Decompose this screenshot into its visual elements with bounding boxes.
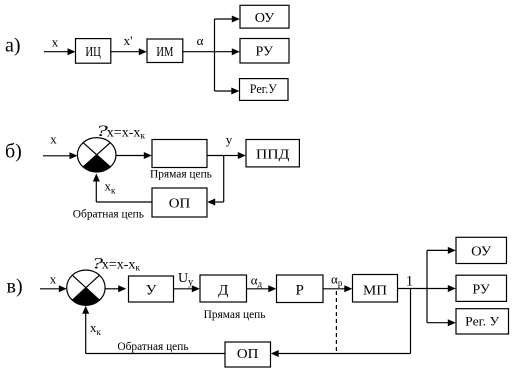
svg-text:МП: МП <box>363 284 387 299</box>
svg-text:ИМ: ИМ <box>156 44 173 59</box>
svg-text:Рег. У: Рег. У <box>465 314 500 329</box>
svg-text:x: x <box>52 35 59 50</box>
svg-text:ОП: ОП <box>169 197 191 212</box>
svg-text:α: α <box>197 33 204 48</box>
svg-text:ОУ: ОУ <box>471 245 491 260</box>
svg-text:РУ: РУ <box>472 283 490 298</box>
svg-text:Д: Д <box>218 283 228 299</box>
svg-text:x: x <box>50 272 57 287</box>
svg-text:РУ: РУ <box>256 45 274 60</box>
svg-text:x': x' <box>124 33 133 48</box>
svg-text:y: y <box>226 132 233 147</box>
svg-text:Р: Р <box>296 283 304 299</box>
svg-text:x=x-xк: x=x-xк <box>107 126 146 142</box>
svg-text:Обратная цепь: Обратная цепь <box>117 341 188 353</box>
svg-text:Прямая цепь: Прямая цепь <box>204 309 266 321</box>
svg-text:а): а) <box>5 35 21 57</box>
svg-text:ППД: ППД <box>256 148 290 163</box>
svg-text:1: 1 <box>406 274 414 290</box>
svg-text:x=x-xк: x=x-xк <box>102 258 141 274</box>
svg-text:ОУ: ОУ <box>255 11 275 26</box>
svg-text:x: x <box>50 132 57 147</box>
svg-text:б): б) <box>5 141 22 163</box>
svg-text:ОП: ОП <box>237 347 259 362</box>
svg-text:в): в) <box>7 275 23 297</box>
svg-text:ИЦ: ИЦ <box>85 44 101 59</box>
svg-text:У: У <box>146 283 157 299</box>
svg-text:Рег.У: Рег.У <box>250 82 277 96</box>
svg-text:Обратная цепь: Обратная цепь <box>73 209 144 221</box>
svg-text:Прямая цепь: Прямая цепь <box>150 168 212 180</box>
